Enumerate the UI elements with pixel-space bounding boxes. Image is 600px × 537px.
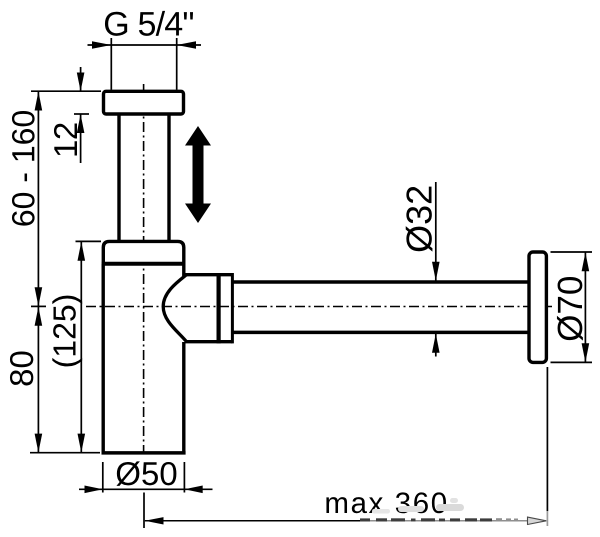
bottle top nut bbox=[102, 241, 186, 265]
vertical centerline of trap body bbox=[143, 84, 145, 454]
elbow joint curve bbox=[163, 275, 186, 342]
adjustability double arrow bbox=[185, 126, 211, 223]
dimension diameter 70: top arrow bbox=[582, 252, 590, 271]
dimension 12: top arrow bbox=[77, 73, 85, 92]
outlet nut right edge bbox=[231, 273, 234, 343]
extension line flange top (left) bbox=[31, 90, 101, 92]
dimension 12: bottom arrow bbox=[77, 114, 85, 133]
dimension max 360: right arrow bbox=[528, 517, 547, 524]
vertical inlet tube bbox=[119, 114, 169, 241]
dimension diameter 50: extension lines bbox=[103, 462, 185, 493]
watermark dark dashes on dimension line bbox=[360, 518, 492, 521]
watermark gray ghost smudge bbox=[372, 498, 464, 514]
label diameter 70 bbox=[557, 277, 583, 341]
dimension max 360: left extension line bbox=[143, 493, 145, 529]
dimension max 360: right extension line bbox=[546, 367, 548, 526]
extension line body bottom (left) bbox=[30, 452, 100, 454]
label (125) bbox=[52, 296, 82, 367]
dimension 80: dimension line bbox=[37, 307, 39, 453]
dimension diameter 32: bottom arrow bbox=[432, 334, 440, 353]
dimension 80: bottom arrow bbox=[35, 434, 43, 453]
label 12 bbox=[54, 123, 77, 155]
dimension G 5/4: extension lines bbox=[111, 38, 176, 90]
horizontal centerline of outlet pipe bbox=[86, 306, 552, 308]
dimension diameter 50: left arrow bbox=[85, 486, 103, 494]
extension tick flange bottom bbox=[74, 113, 89, 115]
dimension G 5/4: right arrow bbox=[177, 41, 196, 49]
dimension (125): bottom arrow bbox=[78, 434, 86, 453]
bottle body bbox=[102, 264, 186, 453]
dimension diameter 70: bottom arrow bbox=[582, 343, 590, 362]
junction tick between 60-160 and 80 bbox=[31, 305, 46, 307]
dimension diameter 70: dimension line bbox=[584, 252, 586, 362]
label G 5/4" bbox=[105, 11, 193, 36]
dimension diameter 32: dimension line bbox=[435, 182, 437, 357]
dimension 60-160: dimension line bbox=[37, 91, 39, 306]
label diameter 50 bbox=[116, 461, 176, 485]
label max 360 bbox=[326, 492, 446, 513]
dimension (125): dimension line bbox=[80, 241, 82, 452]
top flange (G 5/4 nut) bbox=[104, 91, 184, 114]
extension line nut top (left) bbox=[76, 240, 102, 242]
outlet nut thick band bbox=[217, 273, 221, 343]
dimension max 360: left arrow bbox=[145, 517, 164, 524]
label 60 - 160 bbox=[12, 111, 35, 226]
dimension G 5/4: dimension line bbox=[88, 44, 202, 46]
label 80 bbox=[10, 351, 33, 385]
wall flange rosette bbox=[529, 252, 546, 362]
dimension diameter 50: right arrow bbox=[184, 486, 202, 494]
dimension diameter 70: extension lines bbox=[551, 252, 593, 362]
dimension (125): top arrow bbox=[78, 242, 86, 261]
dimension 60-160: bottom arrow bbox=[35, 287, 43, 306]
label diameter 32 bbox=[406, 187, 433, 252]
dimension diameter 32: top arrow bbox=[432, 262, 440, 281]
dimension max 360: dimension line bbox=[145, 520, 546, 522]
dimension diameter 50: dimension line bbox=[79, 488, 213, 490]
dimension 80: top arrow bbox=[35, 307, 43, 326]
dimension 60-160: top arrow bbox=[35, 91, 43, 110]
outlet pipe bbox=[232, 282, 528, 332]
dimension G 5/4: left arrow bbox=[92, 41, 111, 49]
watermark faint dashes right bbox=[496, 518, 518, 521]
elbow top and bottom edges bbox=[185, 275, 232, 342]
dimension 12: dimension line bbox=[80, 67, 82, 163]
